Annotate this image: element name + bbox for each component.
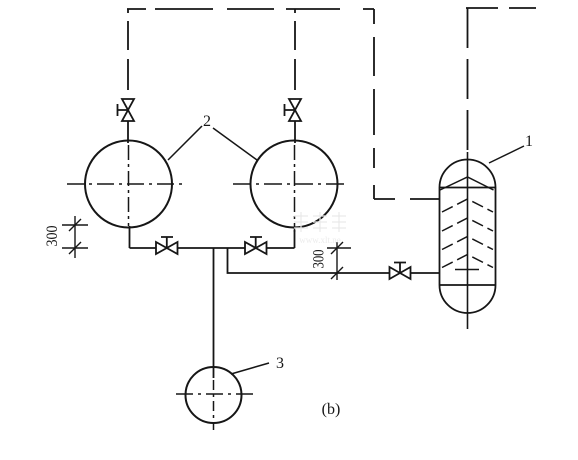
dimension 300 (left): extension ticks xyxy=(62,225,88,248)
vessel 1: bottom level mark xyxy=(455,269,479,271)
wire: pipe from valve to left tank xyxy=(127,121,129,143)
vessel 1: packing chevron row 4 (dashed) xyxy=(442,255,493,268)
tank 2 (right circle) xyxy=(251,141,338,228)
valve on header left (globe valve with stem) xyxy=(156,237,178,254)
wire: drop pipe to pump 3 xyxy=(213,248,215,378)
vessel 1: top dome xyxy=(440,160,496,188)
centerline: pump 3 horizontal xyxy=(176,393,254,395)
dimension 300 (left): dimension line xyxy=(74,216,76,258)
centerline: left tank horizontal xyxy=(67,183,186,185)
svg-text:3: 3 xyxy=(276,355,284,372)
wire: pipe from right tank bottom to header xyxy=(294,230,296,248)
tank 2 (left circle) xyxy=(85,141,172,228)
valve on run to vessel 1 xyxy=(390,263,411,280)
valve on right tank top (angle valve with handwheel) xyxy=(285,99,302,121)
centerline: left tank vertical xyxy=(128,145,130,226)
wire: vertical dashed drop at x=374 xyxy=(373,9,375,199)
wire: bottom liquid header pipe xyxy=(130,247,295,249)
svg-text:300: 300 xyxy=(44,225,61,246)
wire: top horizontal dashed header line xyxy=(127,8,374,10)
wire: pipe from valve to right tank xyxy=(294,121,296,143)
centerline: right tank horizontal xyxy=(233,183,347,185)
dimension 300 (left): oblique ticks xyxy=(69,219,81,254)
valve on left tank top (angle valve with handwheel) xyxy=(118,99,135,121)
vessel 1: bottom dome xyxy=(440,285,496,313)
vessel 1: packing chevron row 3 (dashed) xyxy=(442,237,493,250)
wire: pipe from left tank bottom to header xyxy=(129,226,131,248)
watermark (faint) xyxy=(294,212,346,232)
vessel 1: packing chevron row 2 (dashed) xyxy=(442,218,493,231)
wire: vertical dashed drop to valve of right tank xyxy=(294,9,296,99)
pump 3 (circle) xyxy=(186,367,242,423)
svg-text:300: 300 xyxy=(311,249,328,268)
dimension 300 (right): oblique ticks xyxy=(331,242,343,279)
svg-text:www.xlt.ne: www.xlt.ne xyxy=(299,235,340,245)
svg-text:(b): (b) xyxy=(322,401,341,418)
vessel 1: vertical centerline xyxy=(467,152,469,329)
valve on header right (globe valve with stem) xyxy=(245,237,267,254)
wire: vertical dashed line above vessel 1 xyxy=(467,8,469,152)
centerline: right tank vertical xyxy=(294,145,296,232)
label 1 leader line xyxy=(489,146,524,163)
svg-text:1: 1 xyxy=(525,133,533,150)
wire: horizontal dashed run into vessel 1 xyxy=(374,198,440,200)
dimension 300 (right): dimension line xyxy=(336,242,338,280)
wire: vertical dashed drop to valve of left tank xyxy=(127,9,129,99)
vessel 1: solid distributor chevron xyxy=(440,177,494,190)
centerline: pump 3 vertical xyxy=(213,380,215,430)
svg-text:2: 2 xyxy=(203,113,211,130)
label 3 leader line xyxy=(231,363,269,374)
wire: drop and run to vessel 1 xyxy=(228,248,440,273)
vessel 1: packing chevron row 1 (dashed) xyxy=(442,199,493,212)
dimension 300 (right): extension tick xyxy=(327,247,351,249)
vessel 1: shell body xyxy=(440,188,496,286)
wire: top-right horizontal dashed line xyxy=(466,7,537,9)
label 2 leader lines xyxy=(168,126,257,160)
